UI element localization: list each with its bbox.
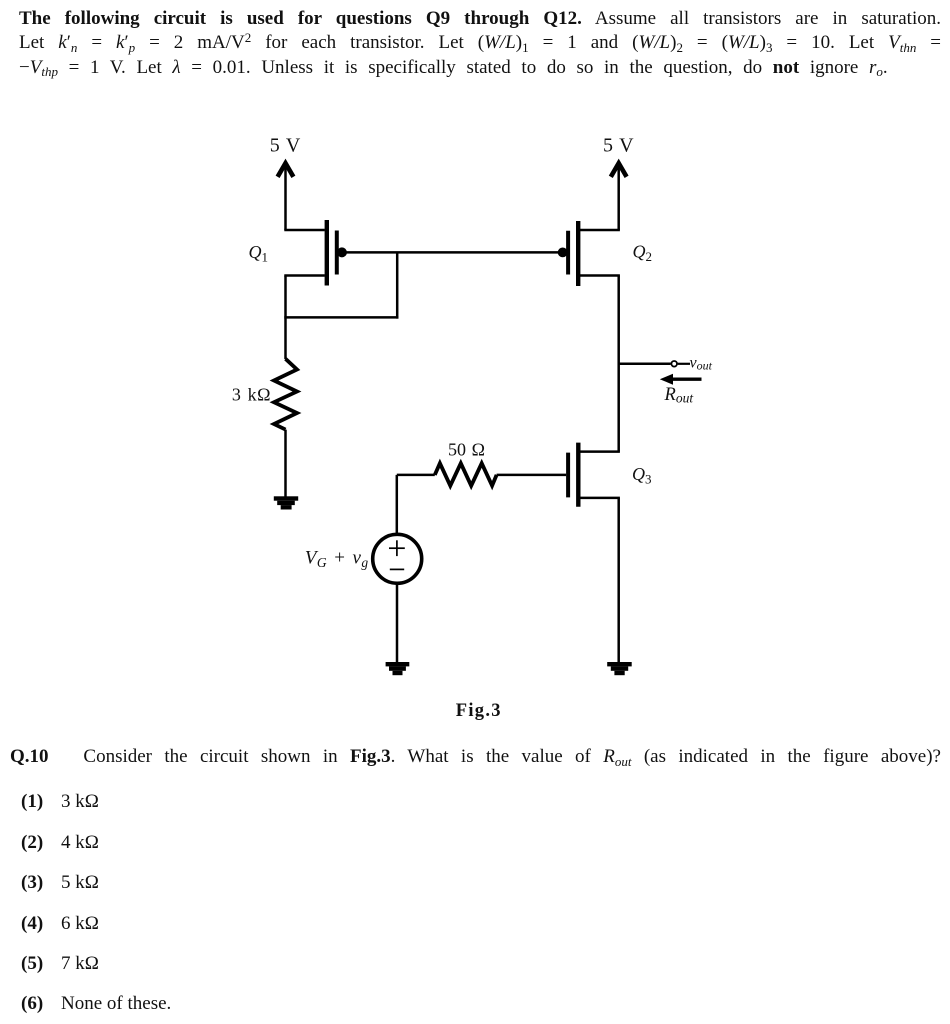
wire: gate-drain feedback vertical <box>396 252 399 318</box>
wire: stub after terminal <box>678 363 690 365</box>
transistor Q1 gate bar <box>335 231 339 275</box>
option 2 <box>21 831 43 856</box>
wire: right 5V to Q2 source <box>580 229 620 232</box>
node vout open terminal <box>671 361 677 367</box>
svg-text:Q3: Q3 <box>632 464 652 487</box>
svg-text:vout: vout <box>690 354 713 372</box>
question text <box>83 745 941 770</box>
wire: Q1 drain lead <box>284 274 325 277</box>
paragraph line 3 <box>19 56 941 81</box>
svg-text:3 kΩ: 3 kΩ <box>232 385 271 405</box>
option 4 <box>21 912 43 937</box>
transistor Q2 gate bar <box>566 231 570 275</box>
wire: left 5V to Q1 source <box>284 229 325 232</box>
transistor Q2 PMOS gate dot <box>558 248 568 258</box>
wire: Q2 drain lead <box>580 274 620 277</box>
resistor R2 50 Ohm zigzag <box>435 463 497 485</box>
transistor Q3 channel bar <box>576 443 580 507</box>
wire: Q3 source down to ground <box>617 498 620 662</box>
question Q.10 number <box>10 745 49 770</box>
option 5 <box>21 952 43 977</box>
voltage source VG+vg circle <box>373 534 422 583</box>
voltage source plus sign <box>389 540 405 556</box>
svg-text:Q1: Q1 <box>249 242 269 265</box>
svg-text:5 V: 5 V <box>603 134 634 156</box>
Rout arrow <box>660 374 702 385</box>
svg-text:Fig.3: Fig.3 <box>456 701 502 721</box>
transistor Q1 (PMOS) channel bar <box>325 220 329 286</box>
option 3 <box>21 871 43 896</box>
transistor Q2 (PMOS) channel bar <box>576 221 580 286</box>
ground (below vg source) <box>386 662 410 675</box>
svg-text:VG + vg: VG + vg <box>305 548 369 570</box>
wire: left rail Q1 drain down to resistor <box>284 276 287 360</box>
transistor Q1 PMOS gate dot <box>337 247 347 257</box>
wire: vg source bottom to ground <box>396 583 399 662</box>
wire: resistor to Q3 gate <box>497 474 566 477</box>
wire: gate-drain feedback horizontal <box>284 316 398 319</box>
option 1 <box>21 790 43 815</box>
wire: Q3 drain lead <box>580 450 620 453</box>
5V supply arrow (right) <box>611 163 627 230</box>
wire: output tap <box>619 363 671 366</box>
wire: source to resistor <box>397 474 435 477</box>
voltage source minus sign <box>390 568 404 570</box>
option 6 <box>21 992 43 1017</box>
svg-text:50 Ω: 50 Ω <box>448 440 485 460</box>
ground (left, below 3k resistor) <box>274 496 298 509</box>
paragraph line 2 <box>19 31 941 56</box>
wire: gate bus Q1 to Q2 <box>342 251 563 254</box>
wire: vg source top <box>396 475 399 535</box>
wire: Q3 source lead <box>580 497 620 500</box>
svg-text:5 V: 5 V <box>270 134 301 156</box>
svg-text:Q2: Q2 <box>633 242 653 265</box>
transistor Q3 (NMOS) gate bar <box>566 453 570 498</box>
wire: resistor to ground <box>284 430 287 497</box>
resistor R1 3k zigzag <box>274 359 297 430</box>
paragraph line 1 <box>19 7 941 32</box>
5V supply arrow (left) <box>278 163 294 230</box>
wire: right rail Q2 drain to Q3 drain <box>617 276 620 452</box>
svg-text:Rout: Rout <box>664 385 695 406</box>
ground (right, below Q3) <box>607 662 632 675</box>
